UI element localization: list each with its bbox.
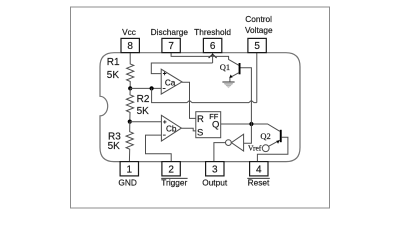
wire: Q net up to Q1 base bbox=[240, 68, 251, 124]
node: R1/R2 junction bbox=[128, 86, 132, 90]
wire: pin6 Threshold lead down bbox=[212, 53, 214, 63]
node: control-voltage tap bbox=[150, 86, 154, 90]
svg-text:7: 7 bbox=[168, 41, 174, 52]
pin 8 box bbox=[121, 38, 139, 52]
IC body outline (555 package with notch) bbox=[100, 53, 300, 162]
svg-text:GND: GND bbox=[118, 177, 136, 187]
outer border frame bbox=[71, 7, 330, 208]
svg-text:Ca: Ca bbox=[165, 78, 176, 87]
svg-text:S: S bbox=[197, 127, 203, 138]
svg-text:4: 4 bbox=[256, 165, 262, 176]
svg-text:Vref: Vref bbox=[248, 144, 262, 153]
pin 1 box bbox=[120, 162, 138, 176]
svg-text:Threshold: Threshold bbox=[194, 27, 231, 37]
wire: junction to Cb plus input bbox=[130, 121, 162, 123]
svg-text:R1: R1 bbox=[107, 57, 120, 68]
resistor R2 bbox=[126, 88, 133, 121]
pin 4 box bbox=[250, 162, 268, 176]
op-amp comparator Ca bbox=[161, 69, 182, 94]
svg-text:Vcc: Vcc bbox=[122, 27, 136, 37]
op-amp comparator Cb bbox=[161, 115, 181, 141]
wire: FF Q output to Q2 bbox=[221, 124, 280, 131]
wire: Cb output to FF S input bbox=[181, 128, 195, 131]
wire: Cb minus to pin2 Trigger bbox=[146, 135, 172, 162]
svg-text:5K: 5K bbox=[108, 141, 121, 152]
node: Q net junction bbox=[249, 122, 253, 126]
transistor Q1 bbox=[239, 63, 241, 74]
wire: junction to Ca minus input bbox=[130, 87, 161, 89]
svg-text:Reset: Reset bbox=[248, 178, 270, 188]
svg-text:5K: 5K bbox=[137, 106, 150, 117]
wire: control voltage net down and right to pin 5 (with hops) bbox=[152, 88, 257, 102]
pin 2 box bbox=[162, 162, 180, 176]
svg-text:R: R bbox=[197, 114, 204, 125]
ground bbox=[222, 81, 234, 83]
svg-text:2: 2 bbox=[168, 165, 174, 176]
svg-text:Discharge: Discharge bbox=[151, 27, 189, 37]
pin 7 box bbox=[162, 38, 180, 52]
pin 3 box bbox=[206, 162, 224, 176]
arrowhead into pin 6 bbox=[209, 54, 217, 58]
Vref terminal bbox=[262, 145, 269, 152]
svg-text:Q1: Q1 bbox=[220, 62, 230, 72]
resistor R1 bbox=[127, 53, 134, 89]
svg-text:1: 1 bbox=[127, 165, 133, 176]
transistor Q2 bbox=[280, 130, 282, 142]
wire: pin5 Control Voltage lead down bbox=[256, 53, 258, 103]
svg-text:Output: Output bbox=[202, 178, 228, 188]
svg-text:Control: Control bbox=[245, 14, 272, 24]
wire: threshold horizontal to Ca+ bbox=[151, 63, 212, 74]
wire: Q2 base to pin4 Reset bbox=[257, 137, 288, 161]
svg-text:Q2: Q2 bbox=[260, 131, 270, 141]
resistor R3 bbox=[126, 122, 133, 162]
pin 6 box bbox=[203, 38, 221, 52]
svg-text:5: 5 bbox=[254, 41, 260, 52]
svg-text:Voltage: Voltage bbox=[245, 25, 273, 35]
flip-flop FF box bbox=[196, 112, 221, 138]
svg-text:3: 3 bbox=[212, 165, 218, 176]
Q2 emitter with arrow to bar bbox=[268, 140, 280, 146]
pin 5 box bbox=[248, 38, 266, 52]
svg-text:8: 8 bbox=[127, 41, 133, 52]
wire: Ca output to FF R input bbox=[182, 82, 196, 118]
wire: pin7 Discharge to Q1 collector bbox=[171, 53, 239, 66]
svg-text:R2: R2 bbox=[137, 94, 150, 105]
svg-text:Trigger: Trigger bbox=[161, 178, 187, 188]
svg-text:5K: 5K bbox=[107, 70, 120, 81]
svg-text:Q: Q bbox=[212, 120, 219, 131]
wire: Q net down to inverter input bbox=[244, 124, 252, 143]
node: R2/R3 junction bbox=[128, 120, 132, 124]
svg-text:Cb: Cb bbox=[166, 125, 177, 134]
wire: inverter to pin3 Output bbox=[214, 143, 226, 162]
inverter output buffer bbox=[231, 134, 243, 151]
svg-text:6: 6 bbox=[210, 41, 216, 52]
